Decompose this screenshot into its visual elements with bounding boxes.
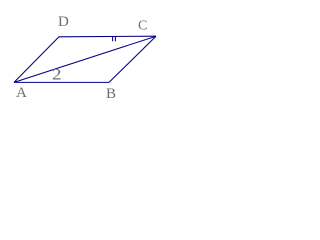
svg-text:B: B (106, 86, 116, 100)
tick 1 on DC (112, 36, 114, 41)
svg-text:2: 2 (52, 67, 62, 84)
diagonal AC (14, 36, 156, 82)
wire (14, 36, 156, 82)
side BC (109, 36, 156, 82)
svg-text:D: D (58, 14, 69, 30)
side AD (14, 37, 59, 83)
svg-text:A: A (16, 85, 27, 100)
svg-text:C: C (138, 19, 147, 34)
tick 2 on DC (114, 36, 116, 41)
side AB (14, 81, 109, 83)
side DC (59, 35, 156, 38)
